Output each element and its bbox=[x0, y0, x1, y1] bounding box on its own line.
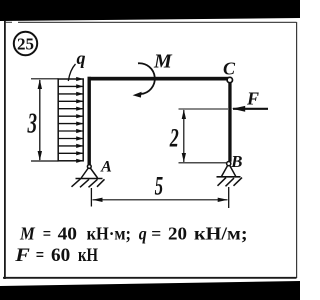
dimension 5 tick under A bbox=[90, 188, 92, 207]
dimension 2 extension line top bbox=[179, 108, 229, 110]
dimension 3 extension line bottom bbox=[31, 160, 59, 162]
svg-text:A: A bbox=[100, 159, 112, 176]
dimension 5 tick under B bbox=[228, 187, 230, 208]
dimension 5 line bbox=[93, 199, 228, 201]
figure border bottom bbox=[3, 277, 297, 279]
svg-text:q: q bbox=[77, 48, 86, 68]
dimension 2 arrow down bbox=[182, 153, 186, 162]
svg-text:3: 3 bbox=[27, 107, 37, 139]
dimension 3 line bbox=[39, 80, 41, 160]
bottom scan band bbox=[0, 281, 300, 300]
svg-text:B: B bbox=[230, 152, 242, 171]
svg-text:F=60кН: F=60кН bbox=[14, 245, 98, 266]
top scan band bbox=[0, 0, 300, 21]
distributed load arrowheads bbox=[76, 77, 83, 163]
support A pin circle bbox=[87, 165, 91, 169]
support A hatching bbox=[72, 179, 105, 188]
dimension 2 arrow up bbox=[182, 109, 186, 119]
figure border top (dashed start) bbox=[6, 21, 297, 23]
force F line bbox=[233, 108, 268, 110]
svg-text:5: 5 bbox=[155, 171, 164, 201]
dimension 5 arrow right bbox=[218, 198, 228, 202]
moment M arrowhead bbox=[133, 92, 142, 98]
svg-text:F: F bbox=[246, 89, 259, 109]
support B pin circle bbox=[227, 162, 231, 166]
moment M arc bbox=[138, 63, 155, 94]
support A ground line bbox=[76, 178, 103, 180]
force F arrowhead bbox=[232, 106, 245, 112]
joint C circle bbox=[227, 77, 232, 82]
distributed load q band outline bbox=[58, 79, 83, 161]
figure border right bbox=[296, 22, 298, 278]
dimension 3 extension line top bbox=[31, 78, 59, 80]
support B hatching bbox=[218, 178, 243, 187]
figure border left bbox=[4, 21, 6, 280]
frame left column bbox=[88, 77, 91, 165]
frame right column bbox=[228, 81, 231, 162]
svg-text:2: 2 bbox=[169, 124, 179, 153]
dimension 3 arrow up bbox=[38, 79, 42, 89]
dimension 2 extension line bottom bbox=[179, 162, 227, 164]
load leader line bbox=[68, 64, 75, 81]
frame top beam bbox=[88, 77, 232, 81]
support B ground line bbox=[217, 176, 241, 178]
dimension 5 arrow left bbox=[92, 198, 102, 202]
support B triangle bbox=[222, 165, 236, 176]
dimension 2 line bbox=[183, 110, 185, 162]
svg-text:25: 25 bbox=[17, 35, 34, 54]
problem number badge circle 25 bbox=[14, 32, 37, 55]
dimension 3 arrow down bbox=[38, 151, 42, 161]
distributed load rungs bbox=[58, 86, 83, 153]
svg-text:C: C bbox=[223, 59, 236, 79]
svg-text:M: M bbox=[153, 51, 173, 73]
support A triangle bbox=[81, 168, 97, 178]
